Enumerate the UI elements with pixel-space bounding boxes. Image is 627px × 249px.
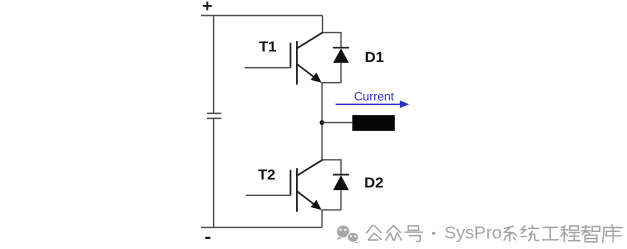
wire node to load xyxy=(322,122,352,124)
diode D2 xyxy=(333,175,349,211)
wire left rail upper xyxy=(213,16,215,114)
watermark text gong2 xyxy=(543,227,559,239)
watermark text zhong xyxy=(386,226,402,241)
svg-text:D1: D1 xyxy=(365,49,384,66)
transistor T1 main bar xyxy=(296,41,298,85)
watermark text ku xyxy=(603,225,623,242)
node midpoint junction xyxy=(320,120,325,125)
wire bottom rail xyxy=(201,226,322,228)
svg-text:SysPro: SysPro xyxy=(444,223,502,243)
transistor T2 emitter with arrow xyxy=(297,191,322,210)
transistor T1 gate lead xyxy=(245,67,291,69)
watermark text tong xyxy=(521,226,539,241)
current direction arrow xyxy=(336,101,410,109)
capacitor C1 xyxy=(207,113,221,118)
watermark text cheng xyxy=(561,226,580,242)
watermark middle dot xyxy=(432,232,435,235)
wire branch to D1 top xyxy=(323,33,342,48)
wire branch to D2 top xyxy=(323,160,342,175)
load block xyxy=(352,115,395,131)
svg-text:T2: T2 xyxy=(258,167,276,184)
transistor T2 gate bar xyxy=(290,170,292,195)
wire right top drop xyxy=(322,16,324,34)
transistor T2 collector diagonal xyxy=(297,160,323,176)
svg-text:T1: T1 xyxy=(259,38,277,55)
watermark text gong xyxy=(367,225,382,240)
transistor T1 gate bar xyxy=(290,43,292,68)
svg-text:Current: Current xyxy=(354,89,395,103)
minus terminal label xyxy=(205,237,210,239)
watermark text zhi xyxy=(581,225,600,242)
transistor T2 gate lead xyxy=(246,194,291,196)
watermark wechat icon xyxy=(337,226,359,244)
wire D2 anode to emitter node xyxy=(322,209,342,211)
svg-text:D2: D2 xyxy=(364,174,383,191)
wire top rail xyxy=(201,15,323,17)
watermark text hao xyxy=(405,226,422,242)
transistor T1 collector diagonal xyxy=(297,32,323,48)
wire D1 anode to emitter node xyxy=(322,82,342,84)
wire right bottom drop xyxy=(321,210,323,228)
transistor T1 emitter with arrow xyxy=(297,64,322,83)
plus terminal label xyxy=(203,2,212,11)
watermark text xi xyxy=(504,226,516,241)
wire mid rail xyxy=(321,83,323,160)
wire left rail lower xyxy=(213,118,215,227)
transistor T2 main bar xyxy=(296,168,298,212)
diode D1 xyxy=(333,48,349,83)
